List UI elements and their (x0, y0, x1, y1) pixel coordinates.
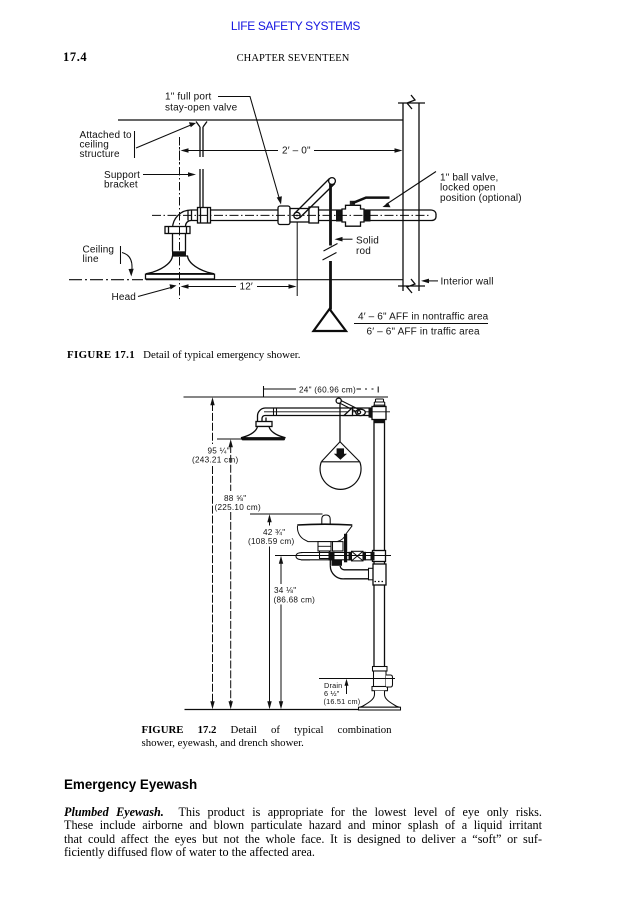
pipe end cap beyond wall (431, 210, 436, 221)
drain nut right (333, 542, 344, 551)
wedge bracket on arm (344, 408, 353, 416)
svg-text:6′ – 6" AFF in traffic area: 6′ – 6" AFF in traffic area (367, 327, 481, 338)
p-trap elbow (330, 566, 344, 579)
valve paddle rod (black) (344, 534, 347, 563)
valve lever arm (295, 179, 335, 219)
leader: support bracket (143, 174, 189, 176)
shower arm pipe (265, 408, 372, 416)
svg-text:Solid: Solid (356, 236, 379, 247)
dim line 34.13 (x=281) (280, 562, 282, 704)
floor reference line under head to wall (146, 279, 403, 281)
svg-text:95 ¼": 95 ¼" (208, 447, 230, 456)
svg-text:bracket: bracket (104, 180, 138, 191)
svg-text:1" full port: 1" full port (165, 92, 212, 103)
svg-text:stay-open valve: stay-open valve (165, 103, 238, 114)
24 inch dim line (264, 388, 374, 390)
stay-open valve outlet coupling (309, 207, 319, 223)
supply black band 1 (329, 552, 335, 561)
riser pipe (374, 405, 385, 666)
horizontal supply pipe (191, 210, 431, 221)
paragraph line 3 (64, 832, 542, 847)
arm centerline (264, 411, 390, 413)
solid rod (pull rod) (329, 184, 332, 310)
svg-text:(108.59 cm): (108.59 cm) (248, 537, 294, 546)
pull handle triangle flare (321, 442, 360, 462)
dim line 88.63 (x=230.7) (230, 445, 232, 703)
riser top cap (374, 399, 386, 405)
svg-text:88 ⅝": 88 ⅝" (224, 494, 246, 503)
drain coupling (369, 568, 375, 580)
drain nut left (318, 542, 331, 551)
strut pivot ring (336, 398, 341, 403)
FIGURE 17.2 drawing (0, 380, 618, 715)
arm end black flange (369, 408, 373, 419)
svg-text:(243.21 cm): (243.21 cm) (192, 456, 238, 465)
drop pipe black band (172, 251, 186, 256)
black down arrow (334, 448, 347, 459)
supply centerline (276, 555, 391, 557)
leader: interior wall label (423, 280, 438, 282)
svg-text:rod: rod (356, 246, 371, 257)
24 inch left tick (263, 386, 265, 397)
rod break marks (323, 244, 338, 261)
shower head bell (146, 256, 214, 274)
svg-text:(16.51 cm): (16.51 cm) (324, 697, 361, 706)
svg-text:line: line (83, 254, 99, 265)
dimension 2'-0" line (187, 150, 396, 152)
svg-text:2′ – 0": 2′ – 0" (282, 146, 311, 157)
svg-text:Head: Head (112, 292, 137, 303)
leader: ceiling line curved arrow (120, 246, 122, 264)
dim line 95.25 (x=212.5) (212, 403, 214, 703)
eyewash bowl body (297, 526, 352, 542)
paragraph line 1 (64, 805, 542, 820)
drain outlet stub (386, 675, 393, 687)
supply black band 2 (349, 552, 352, 561)
pipe couplings right of elbow (187, 210, 189, 221)
svg-text:Interior wall: Interior wall (441, 277, 494, 288)
lever tip knuckle (329, 178, 336, 185)
svg-text:24" (60.96 cm): 24" (60.96 cm) (299, 385, 356, 394)
paragraph line 4 (64, 845, 542, 860)
supply left cap (296, 553, 310, 560)
FIGURE 17.1 drawing (0, 85, 618, 345)
tick for 42.75 dim (250, 513, 323, 515)
drain height tick line (319, 678, 395, 680)
drop pipe (173, 234, 186, 252)
stay-open valve body (290, 209, 309, 223)
pull handle ring (circle bottom) (320, 462, 361, 490)
stay-open valve inlet flange (278, 206, 290, 225)
tick for 34.13 dim (275, 555, 292, 557)
svg-text:(86.68 cm): (86.68 cm) (274, 595, 316, 604)
chapter head (0, 53, 586, 64)
linkage eye (356, 409, 366, 415)
pull rod (fig2) (339, 404, 341, 443)
riser base union (373, 667, 388, 672)
valve pivot (294, 212, 300, 218)
svg-text:locked open: locked open (440, 183, 496, 194)
supply black band 3 (363, 552, 366, 561)
wall break top (398, 95, 425, 109)
ball valve left black flange (336, 210, 343, 222)
head dark rim (242, 438, 286, 441)
leader: head label (138, 288, 171, 297)
AFF fraction bar (354, 323, 488, 325)
drain stub to supply (320, 551, 330, 559)
dim line 42.75 (x=269.5) (269, 520, 271, 703)
dimension 12' line (187, 286, 290, 288)
riser tee at arm (372, 407, 386, 420)
eyewash nozzle (322, 515, 330, 525)
black band below tee (374, 420, 386, 423)
shower head bell (fig2) (241, 427, 286, 438)
black fitting under bowl (332, 560, 343, 566)
ball valve stem (350, 201, 355, 206)
support rod upper (196, 122, 207, 158)
svg-text:4′ – 6" AFF in nontraffic area: 4′ – 6" AFF in nontraffic area (358, 312, 489, 323)
drain dim arrow (346, 681, 348, 694)
pull handle triangle (314, 309, 347, 331)
caption figure 17.2 line 2 (142, 737, 304, 749)
tick for 88.63 dim (217, 438, 248, 440)
arm elbow (257, 408, 266, 422)
drain drop pipe (330, 560, 340, 567)
svg-text:42 ¾": 42 ¾" (263, 528, 285, 537)
strut linkage (337, 399, 359, 413)
caption figure 17.2 line 1 (142, 724, 392, 736)
ceiling structure line (118, 119, 403, 121)
ball valve handle (352, 198, 389, 204)
elbow flange (165, 227, 190, 234)
paragraph line 2 (64, 818, 542, 833)
leader: attached to ceiling (134, 131, 136, 158)
dim extension over centerline (179, 139, 181, 164)
support bracket clamp on pipe (198, 208, 211, 224)
pipe centerline (dash-dot) (152, 214, 431, 216)
ground line (185, 709, 401, 711)
supply union (352, 551, 364, 561)
drain horizontal pipe (345, 570, 370, 579)
interior wall left face (402, 103, 404, 291)
svg-text:34 ⅛": 34 ⅛" (274, 586, 296, 595)
section heading (64, 777, 197, 792)
wall break bottom (398, 279, 425, 293)
page number 17.4 (63, 50, 87, 65)
ball valve right black flange (364, 210, 371, 222)
valve drop projection line (296, 222, 298, 296)
svg-text:structure: structure (80, 149, 121, 160)
svg-text:position (optional): position (optional) (440, 193, 522, 204)
leader: full port valve label (218, 97, 280, 202)
arm couplings (274, 408, 277, 416)
shower head rim (146, 274, 215, 279)
base flange (360, 691, 400, 708)
top reference line (184, 396, 389, 398)
svg-text:12′: 12′ (240, 282, 253, 293)
riser tee at drain (373, 564, 386, 585)
riser tee at supply (373, 551, 386, 562)
leader: solid rod label (340, 238, 353, 240)
base plate (359, 707, 401, 710)
leader: ball valve label (386, 172, 436, 205)
running head: LIFE SAFETY SYSTEMS (0, 19, 591, 33)
support rod lower (200, 169, 203, 208)
eyewash bowl rim (297, 523, 352, 526)
ball valve body (342, 205, 364, 226)
head flange (256, 422, 272, 427)
shower centerline (dash-dot) (179, 137, 181, 299)
ceiling line dash-dot at head (69, 279, 143, 281)
svg-text:(225.10 cm): (225.10 cm) (215, 503, 261, 512)
interior wall right face (418, 103, 420, 291)
caption figure 17.1 (67, 349, 301, 361)
supply pipe (301, 553, 374, 560)
pipe elbow to shower drop (173, 210, 192, 234)
